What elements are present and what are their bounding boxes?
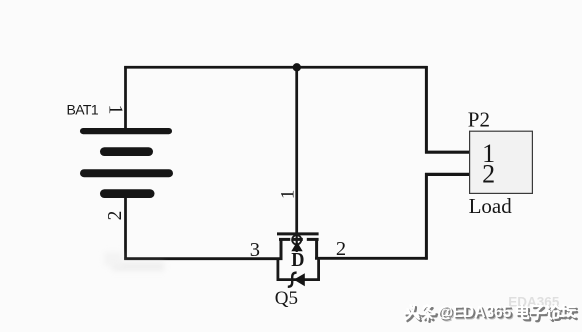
svg-text:2: 2 <box>336 238 346 260</box>
svg-text:@EDA365: @EDA365 <box>438 304 512 321</box>
svg-text:Q5: Q5 <box>275 288 298 309</box>
svg-text:BAT1: BAT1 <box>67 102 99 118</box>
svg-text:1: 1 <box>278 190 299 200</box>
svg-text:2: 2 <box>482 159 495 188</box>
svg-text:1: 1 <box>105 105 127 115</box>
svg-text:2: 2 <box>105 211 126 221</box>
svg-text:P2: P2 <box>468 108 490 132</box>
svg-text:3: 3 <box>250 239 260 261</box>
svg-text:D: D <box>291 249 304 271</box>
svg-text:Load: Load <box>469 194 513 218</box>
